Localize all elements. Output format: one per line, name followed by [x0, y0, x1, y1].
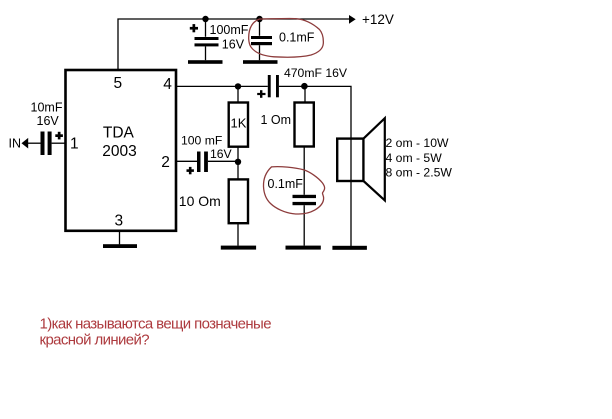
wire input to C6	[28, 142, 41, 144]
wire +12V supply rail	[118, 19, 349, 69]
svg-text:красной линией?: красной линией?	[40, 331, 150, 348]
svg-text:16V: 16V	[37, 114, 60, 128]
ground for speaker	[332, 246, 367, 250]
svg-text:2 om - 10W: 2 om - 10W	[386, 136, 449, 150]
svg-text:IN: IN	[9, 137, 22, 151]
capacitor C3 470mF 16V	[257, 66, 348, 98]
svg-text:10 Om: 10 Om	[179, 193, 221, 209]
resistor R1 1K	[229, 86, 248, 179]
node C junction (1K top)	[235, 83, 241, 89]
svg-text:470mF 16V: 470mF 16V	[284, 66, 348, 80]
speaker SP1	[337, 118, 385, 200]
svg-text:4: 4	[163, 76, 172, 93]
svg-text:100 mF: 100 mF	[181, 134, 222, 148]
ground for R2	[221, 246, 256, 250]
svg-text:16V: 16V	[210, 147, 233, 161]
wire C6 to pin 1	[52, 142, 66, 144]
node D junction (1 Om top)	[301, 83, 308, 90]
svg-text:TDA: TDA	[103, 124, 135, 141]
ground for C2	[243, 60, 278, 64]
ground for C5	[286, 246, 321, 250]
svg-text:5: 5	[114, 75, 123, 92]
svg-text:0.1mF: 0.1mF	[268, 177, 304, 191]
svg-text:8 om - 2.5W: 8 om - 2.5W	[386, 166, 453, 180]
wire pin 4 net	[176, 85, 268, 87]
wire C3 to speaker branch	[279, 86, 351, 246]
capacitor C4 100mF 16V (pin 2)	[176, 134, 238, 175]
capacitor C6 10mF 16V	[31, 101, 63, 156]
wire IC pin3 to ground	[119, 231, 121, 244]
svg-text:16V: 16V	[222, 38, 245, 52]
svg-text:3: 3	[115, 213, 124, 230]
ground for C1	[188, 60, 223, 64]
svg-text:0.1mF: 0.1mF	[279, 30, 315, 44]
svg-text:2003: 2003	[102, 143, 136, 160]
resistor R2 10 Om	[179, 179, 248, 245]
svg-text:100mF: 100mF	[210, 23, 249, 37]
input arrow	[22, 138, 29, 149]
op-amp IC U1 TDA2003	[66, 70, 177, 231]
svg-text:+12V: +12V	[362, 12, 394, 27]
capacitor C2 0.1mF	[251, 19, 315, 60]
ground for IC	[103, 244, 137, 248]
red annotation loop around C2	[249, 18, 324, 57]
node A junction on rail	[202, 16, 208, 22]
svg-text:1: 1	[70, 136, 79, 153]
svg-text:10mF: 10mF	[31, 101, 63, 115]
svg-text:2: 2	[161, 154, 170, 171]
node B junction on rail	[256, 16, 262, 22]
node E junction (pin2/R1/R2)	[235, 159, 241, 165]
+12V arrow	[349, 12, 394, 27]
red annotation loop around C5	[263, 167, 324, 214]
capacitor C1 100mF 16V	[190, 19, 249, 60]
resistor R3 1 Om	[261, 86, 314, 194]
svg-text:1 Om: 1 Om	[261, 113, 292, 127]
svg-text:4 om - 5W: 4 om - 5W	[386, 151, 443, 165]
capacitor C5 0.1mF	[268, 177, 317, 245]
svg-text:1)как называютса вещи позначен: 1)как называютса вещи позначеные	[40, 315, 272, 332]
svg-text:1K: 1K	[231, 116, 247, 131]
